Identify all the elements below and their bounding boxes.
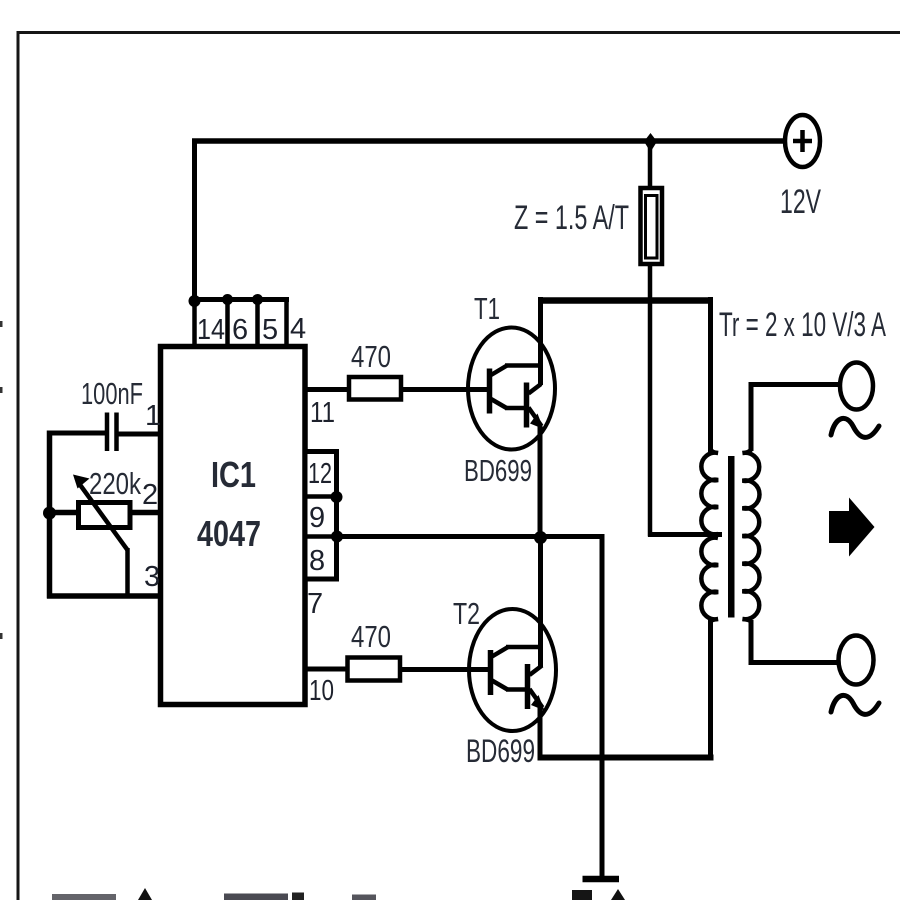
svg-text:IC1: IC1 — [211, 454, 256, 495]
wire: fuse lower lead down to transformer centre tap — [648, 263, 653, 537]
svg-text:T2: T2 — [453, 596, 480, 631]
node dot pin6 — [222, 294, 233, 305]
node dot pin5 — [252, 294, 263, 305]
ac tilde bottom — [831, 695, 879, 714]
svg-text:14: 14 — [197, 314, 225, 346]
IC top pin box rail — [192, 297, 289, 302]
wire: bottom to pin 3 — [47, 593, 163, 599]
wire: T1 emitter vertical — [538, 424, 543, 538]
wire: top vertical from IC pins to top rail — [192, 139, 197, 302]
clipped caption letter tops at page bottom — [52, 888, 625, 900]
pin box divider 9/8 — [305, 534, 337, 539]
wire: fuse upper lead — [648, 141, 653, 190]
transformer core bar — [728, 456, 735, 618]
svg-text:BD699: BD699 — [464, 453, 532, 488]
output terminal bottom — [839, 636, 874, 685]
svg-text:1: 1 — [145, 400, 161, 432]
svg-text:9: 9 — [309, 502, 325, 534]
svg-text:470: 470 — [351, 619, 391, 654]
transformer Tr primary winding lower — [701, 538, 718, 622]
terminal +12V — [785, 115, 820, 167]
transistor T2 (BD699 darlington) — [469, 609, 556, 731]
svg-text:Tr = 2 x 10 V/3 A: Tr = 2 x 10 V/3 A — [719, 306, 886, 344]
transformer Tr primary winding upper — [701, 449, 718, 534]
node: junction on top rail at fuse — [644, 133, 657, 152]
node dot at pins 12-9 — [331, 491, 343, 503]
wire: centre tap horizontal — [648, 532, 722, 537]
left margin tick 2 — [0, 387, 3, 393]
wire: secondary top horizontal to output — [749, 382, 841, 387]
svg-text:2: 2 — [142, 479, 158, 511]
wire: pin 11 to R1 — [303, 387, 352, 392]
wire: pot row to pin 2 — [47, 510, 162, 516]
wire: +12V top rail — [192, 138, 784, 144]
node dot T1 emitter/T2 collector on pin8 net — [534, 531, 547, 544]
svg-text:3: 3 — [144, 561, 160, 593]
wire: transformer primary bottom vertical — [708, 618, 713, 760]
capacitor C plates — [105, 413, 110, 452]
svg-text:4047: 4047 — [197, 513, 261, 554]
wire: pin 8 net to ground column — [336, 534, 605, 539]
svg-text:7: 7 — [307, 588, 323, 620]
wire: ground column vertical — [600, 534, 605, 879]
potentiometer arrow diagonal — [78, 482, 128, 550]
fuse Z outer body — [641, 188, 663, 264]
wire: transformer primary top vertical — [708, 297, 713, 455]
wire: pin 10 to R2 — [303, 667, 350, 672]
capacitor C right wire to pin 1 — [118, 432, 163, 437]
potentiometer wiper drop wire — [125, 548, 130, 597]
node dot at pins 9-8 — [331, 531, 343, 543]
pin box divider 5 — [255, 299, 260, 347]
transformer Tr secondary winding — [743, 449, 760, 622]
border frame left — [17, 31, 20, 900]
wire: T1 collector vertical — [538, 297, 543, 385]
wire: secondary top vertical — [749, 382, 754, 451]
pin box divider 12/9 — [305, 494, 337, 499]
svg-text:4: 4 — [290, 313, 306, 345]
svg-text:470: 470 — [351, 339, 391, 374]
wire: T2 collector vertical — [538, 537, 543, 667]
border frame top — [17, 31, 900, 34]
wire: bottom rail T2 emitter to transformer — [538, 755, 714, 761]
resistor R2 470 body — [348, 658, 401, 681]
ground symbol bar — [583, 876, 620, 883]
svg-text:5: 5 — [262, 314, 278, 346]
svg-text:BD699: BD699 — [466, 733, 535, 769]
wire: left vertical bus — [47, 431, 53, 599]
transistor T1 (BD699 darlington) — [468, 328, 555, 450]
pin box divider 14 — [192, 299, 197, 347]
resistor R1 470 body — [349, 377, 401, 400]
left margin tick 1 — [0, 321, 3, 327]
capacitor C 100nF left wire — [47, 431, 106, 436]
potentiometer arrow head — [73, 475, 90, 489]
svg-text:11: 11 — [310, 397, 335, 429]
wire: T1 collector rail (bold) — [538, 297, 713, 304]
svg-text:6: 6 — [232, 314, 248, 346]
IC right pin box group 12/9/8 — [305, 452, 337, 580]
pin box divider 6 — [225, 299, 230, 347]
svg-text:220k: 220k — [89, 466, 141, 501]
IC1 body — [161, 347, 306, 705]
output arrow icon — [829, 498, 875, 557]
ac tilde top — [831, 418, 879, 437]
potentiometer P 220k body — [79, 503, 131, 528]
wire: secondary bottom horizontal to output — [749, 660, 840, 665]
node dot pin14 — [189, 295, 201, 307]
svg-text:Z = 1.5 A/T: Z = 1.5 A/T — [514, 199, 629, 237]
svg-text:10: 10 — [309, 675, 334, 707]
wire: R1 to T1 base — [400, 387, 490, 392]
node dot on left bus at pot wire — [43, 507, 56, 520]
left margin tick 3 — [0, 633, 3, 639]
wire: T2 emitter vertical — [538, 706, 543, 758]
svg-text:12: 12 — [308, 458, 332, 490]
svg-text:8: 8 — [309, 545, 325, 577]
wire: secondary bottom vertical — [749, 620, 754, 665]
fuse Z inner body — [646, 196, 658, 259]
svg-text:T1: T1 — [474, 291, 500, 326]
output terminal top — [840, 363, 873, 410]
pin box divider 4 — [284, 299, 289, 347]
svg-text:100nF: 100nF — [81, 376, 143, 411]
wire: R2 to T2 base — [399, 667, 491, 672]
svg-text:12V: 12V — [780, 183, 821, 221]
